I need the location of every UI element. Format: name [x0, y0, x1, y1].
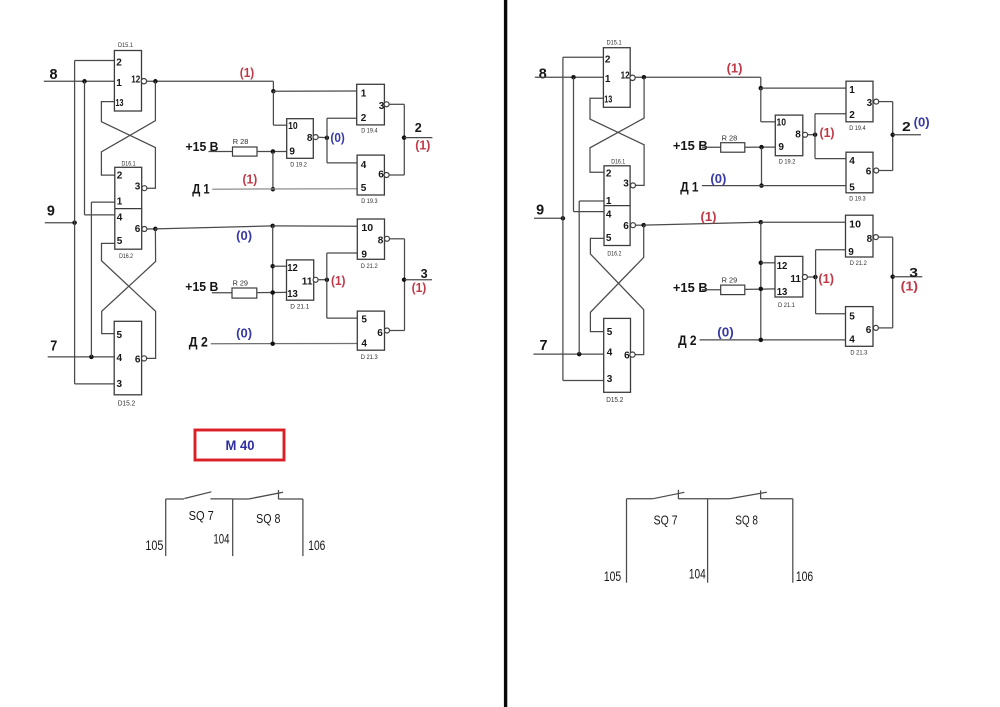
- svg-text:2: 2: [117, 171, 123, 182]
- junction on wire 9 (right): [561, 216, 566, 221]
- junction on wire 7 (right): [577, 352, 582, 357]
- svg-text:2: 2: [849, 110, 855, 121]
- wire D15.1 output 12 (right): [635, 76, 761, 78]
- wire vertical net 8 (left): [84, 81, 86, 215]
- wire D16.2 out6 segment b (right): [644, 222, 761, 225]
- wire corner to out3 node upper (left): [404, 239, 406, 280]
- wire vertical R28 net to D1 (left): [272, 152, 274, 190]
- wire vertical D21.1-out net (left): [326, 253, 328, 318]
- svg-text:(0): (0): [914, 116, 930, 130]
- inversion bubble D15.1 out 12 (right): [630, 75, 635, 80]
- svg-text:3: 3: [909, 265, 918, 280]
- svg-text:9: 9: [47, 203, 55, 220]
- svg-text:6: 6: [624, 351, 630, 362]
- wire cross-couple D16.2 pin5 to D15.2 out6 (right): [590, 238, 643, 354]
- svg-text:6: 6: [623, 221, 629, 232]
- wire input 7 (right): [533, 353, 604, 355]
- wire D16.2 out6 segment b (left): [155, 226, 272, 229]
- wire corner to out3 node lower (left): [404, 280, 406, 331]
- wire D21.3 out6 (right): [878, 327, 893, 329]
- inversion bubble D16.1 out 3 (left): [142, 186, 147, 191]
- wire D19.2 out to node (right): [808, 134, 816, 136]
- svg-text:(0): (0): [236, 327, 252, 341]
- svg-text:3: 3: [623, 179, 629, 190]
- svg-text:2: 2: [415, 120, 422, 135]
- svg-text:3: 3: [135, 181, 141, 192]
- svg-text:D 19.3: D 19.3: [849, 197, 866, 203]
- wire corner to out2 node lower (right): [892, 135, 894, 171]
- flip-flop D15.2 (left): [114, 321, 141, 395]
- wire SQ7 right stub (left): [210, 498, 232, 500]
- svg-text:7: 7: [540, 337, 548, 354]
- svg-text:4: 4: [117, 353, 123, 364]
- wire to D15.2 pin3 (left): [75, 383, 115, 385]
- svg-text:1: 1: [361, 89, 367, 100]
- wire to D19.2 pin10 (left): [273, 124, 286, 126]
- inversion bubble D19.4 out 3 (left): [384, 102, 389, 107]
- wire to D15.1 pin2 (right): [563, 56, 603, 58]
- junction R29 net (right): [759, 287, 764, 292]
- svg-text:3: 3: [867, 98, 873, 109]
- svg-text:SQ 7: SQ 7: [189, 509, 214, 523]
- wire to D16.1 pin1 (left): [91, 201, 114, 203]
- wire to D15.2 pin3 (right): [563, 380, 604, 382]
- svg-text:7: 7: [50, 337, 57, 354]
- terminal wire 105 (left): [165, 499, 167, 556]
- svg-text:(0): (0): [330, 131, 344, 145]
- svg-text:9: 9: [361, 249, 367, 260]
- junction D2 net (right): [759, 338, 764, 343]
- svg-text:+15 В: +15 В: [673, 280, 708, 295]
- svg-text:2: 2: [902, 119, 911, 134]
- wire corner to out3 node upper (right): [892, 237, 894, 277]
- svg-text:D 21.2: D 21.2: [361, 264, 379, 270]
- svg-text:(0): (0): [236, 229, 252, 243]
- wire cross-couple D15.1 out12 to D16.1 pin2 (right): [590, 77, 644, 172]
- resistor R28 (left): [233, 147, 258, 156]
- wire to D19.2 pin10 (right): [761, 121, 776, 123]
- svg-text:R 28: R 28: [722, 135, 738, 142]
- svg-text:8: 8: [50, 66, 58, 83]
- wire output 3 (left): [405, 279, 433, 281]
- svg-text:2: 2: [361, 113, 367, 124]
- terminal wire 104 (left): [232, 499, 234, 556]
- wire D19.2 out to node (left): [318, 136, 326, 138]
- wire D19.3 out6 (right): [879, 170, 893, 172]
- svg-text:5: 5: [117, 330, 123, 341]
- wire D15.1 output 12 (left): [147, 80, 274, 82]
- terminal wire 106 (left): [302, 499, 304, 556]
- node output 3 (left): [402, 277, 407, 282]
- junction on wire 7 (left): [89, 355, 94, 360]
- junction D16.2 out6 (right): [641, 223, 646, 228]
- wire D16.2 out6 segment c to D21.2 pin10 (right): [761, 221, 846, 223]
- wire to D16.2 pin4 (right): [574, 211, 605, 213]
- wire cross-couple D15.1 out12 to D16.1 pin2 (left): [101, 81, 155, 175]
- junction R29 net (left): [270, 290, 275, 295]
- node output 2 (left): [402, 135, 407, 140]
- wire cross-couple D16.2 out6 to D15.2 pin5 (right): [590, 225, 643, 332]
- svg-text:5: 5: [849, 182, 855, 193]
- node output 2 (right): [890, 133, 895, 138]
- wire vertical D19.2-out net (right): [814, 114, 816, 159]
- gate D21.1 (left): [287, 260, 314, 300]
- svg-text:6: 6: [866, 325, 872, 336]
- wire to D21.2 pin9 (left): [327, 252, 358, 254]
- svg-text:1: 1: [606, 196, 612, 207]
- svg-text:11: 11: [302, 276, 313, 287]
- svg-text:105: 105: [604, 569, 621, 584]
- wire vertical R28 net to D1 (right): [761, 147, 763, 186]
- svg-text:(1): (1): [415, 138, 430, 152]
- node A left upper: [271, 89, 276, 94]
- wire node A down (left): [272, 91, 274, 125]
- svg-text:(1): (1): [243, 172, 258, 186]
- svg-text:D 19.4: D 19.4: [849, 126, 866, 132]
- svg-text:3: 3: [607, 374, 613, 385]
- wire +15V to R28 (left): [209, 151, 233, 153]
- svg-text:R 28: R 28: [233, 139, 249, 146]
- svg-text:(1): (1): [901, 280, 918, 294]
- svg-text:D15.2: D15.2: [606, 397, 623, 404]
- svg-text:5: 5: [361, 183, 367, 194]
- wire node A to D19.4 pin1 (right): [761, 87, 846, 89]
- wire output 2 (right): [893, 134, 921, 136]
- svg-text:104: 104: [213, 532, 229, 547]
- junction D16.2 out6 (left): [153, 227, 158, 232]
- junction D21.1 out (left): [325, 278, 330, 283]
- wire corner to out2 node upper (left): [403, 104, 405, 137]
- svg-text:10: 10: [361, 223, 373, 234]
- svg-text:12: 12: [131, 75, 140, 86]
- svg-text:D16.1: D16.1: [611, 159, 625, 166]
- svg-text:D 21.2: D 21.2: [850, 261, 868, 267]
- inversion bubble D15.2 out 6 (left): [142, 356, 147, 361]
- svg-text:104: 104: [689, 566, 706, 581]
- wire to D21.3 pin5 (left): [327, 317, 358, 319]
- wire D19.3 out6 (left): [389, 174, 404, 176]
- wire input 7 (left): [48, 356, 115, 358]
- wire input 9 (left): [45, 222, 75, 224]
- wire vertical node B (right): [760, 222, 762, 340]
- gate D19.2 (right): [775, 115, 803, 156]
- junction D1 net (left): [271, 187, 276, 192]
- wire D21.3 out6 (left): [389, 330, 404, 332]
- wire output 2 (left): [404, 137, 432, 139]
- svg-text:1: 1: [117, 196, 123, 207]
- junction D1 net (right): [759, 183, 764, 188]
- svg-text:(1): (1): [412, 281, 427, 295]
- svg-text:3: 3: [379, 101, 385, 112]
- svg-text:10: 10: [288, 121, 298, 132]
- svg-text:D 21.1: D 21.1: [290, 305, 310, 311]
- switch SQ7 blade (right): [652, 492, 684, 499]
- svg-text:105: 105: [145, 538, 163, 553]
- wire corner down to node (right): [760, 77, 762, 88]
- wire node A down (right): [760, 88, 762, 122]
- svg-text:8: 8: [307, 133, 313, 144]
- svg-text:1: 1: [116, 78, 122, 89]
- wire to D16.1 pin1 (right): [579, 200, 604, 202]
- wire D21.2 out8 (right): [878, 236, 893, 238]
- switch SQ7 blade (left): [184, 492, 211, 499]
- svg-text:(1): (1): [820, 126, 835, 140]
- svg-text:1: 1: [605, 74, 611, 85]
- node B left lower: [270, 224, 275, 229]
- inversion bubble D16.2 out 6 (left): [142, 227, 147, 232]
- resistor R29 (right): [721, 285, 745, 295]
- svg-text:4: 4: [361, 160, 367, 171]
- wire vertical net 7 (left): [90, 202, 92, 357]
- svg-text:2: 2: [606, 169, 612, 180]
- junction D21.1 out (right): [813, 275, 818, 280]
- svg-text:Д 1: Д 1: [192, 181, 210, 197]
- wire vertical D21.1-out net (right): [815, 250, 817, 314]
- wire corner to out2 node lower (left): [403, 138, 405, 175]
- node output 3 (right): [890, 274, 895, 279]
- svg-text:13: 13: [116, 98, 124, 109]
- junction R28 net (left): [271, 149, 276, 154]
- switch SQ8 blade (left): [249, 492, 283, 499]
- junction D21.1 pin12 net (right): [759, 261, 764, 266]
- wire R28 to D19.2 pin9 (left): [257, 151, 287, 153]
- gate D21.2 (right): [846, 215, 874, 257]
- wire vertical net 9 (left): [74, 61, 76, 384]
- node A right upper: [759, 86, 764, 91]
- junction R28 net (right): [759, 145, 764, 150]
- svg-text:6: 6: [378, 170, 384, 181]
- switch SQ8 contact tick (right): [760, 490, 762, 499]
- junction D15.1 out (left): [153, 79, 158, 84]
- wire input D1 to D19.3 pin5 (right): [702, 185, 846, 187]
- svg-text:11: 11: [790, 274, 801, 285]
- svg-text:SQ 7: SQ 7: [654, 513, 678, 527]
- junction D2 net (left): [270, 341, 275, 346]
- wire input D1 to D19.3 pin5 (left): [212, 188, 357, 191]
- wire +15V to R28 (right): [702, 146, 721, 148]
- node B right lower: [759, 220, 764, 225]
- svg-text:4: 4: [849, 156, 855, 167]
- inversion bubble D15.2 out 6 (right): [630, 352, 635, 357]
- svg-text:4: 4: [117, 213, 123, 224]
- svg-text:5: 5: [607, 327, 613, 338]
- svg-text:D16.1: D16.1: [122, 160, 136, 167]
- svg-text:5: 5: [117, 236, 123, 247]
- inversion bubble D21.2 out 8 (left): [385, 236, 390, 241]
- wire to D21.1 pin12 (right): [761, 262, 775, 264]
- wire input D2 to D21.3 pin4 (left): [211, 343, 357, 345]
- svg-text:5: 5: [849, 312, 855, 323]
- svg-text:6: 6: [135, 224, 141, 235]
- wire output 3 (right): [893, 276, 923, 278]
- junction on wire 9 (left): [72, 220, 77, 225]
- svg-text:SQ 8: SQ 8: [735, 513, 758, 527]
- switch SQ8 contact tick (left): [278, 490, 280, 499]
- flip-flop D16.1/D16.2 body (left): [115, 167, 142, 249]
- wire D16.2 out6 segment a (left): [147, 228, 156, 230]
- gate D21.3 (right): [846, 307, 874, 347]
- svg-text:+15 В: +15 В: [673, 138, 708, 153]
- wire SQ8 left lead (left): [233, 498, 249, 500]
- inversion bubble D21.1 out 11 (right): [802, 275, 807, 280]
- svg-text:5: 5: [361, 314, 367, 325]
- inversion bubble D21.1 out 11 (left): [313, 277, 318, 282]
- wire +15V to R29 (right): [702, 289, 721, 291]
- wire corner to out3 node lower (right): [892, 277, 894, 328]
- svg-text:D15.1: D15.1: [607, 39, 622, 46]
- wire node A to D19.4 pin1 (left): [273, 90, 356, 92]
- wire cross-couple D15.1 pin13 to D16.1 out3 (right): [590, 98, 644, 185]
- svg-text:10: 10: [777, 118, 787, 129]
- svg-text:(0): (0): [710, 172, 726, 186]
- flip-flop D15.2 (right): [604, 318, 631, 392]
- wire input 9 (right): [534, 217, 563, 219]
- gate D19.4 (right): [846, 81, 873, 122]
- page divider line: [504, 0, 507, 707]
- svg-text:6: 6: [135, 354, 141, 365]
- wire to D19.4 pin2 (left): [327, 117, 357, 119]
- gate D19.2 (left): [287, 119, 314, 159]
- svg-text:106: 106: [308, 538, 325, 553]
- wire input 8 (left): [44, 80, 115, 82]
- svg-text:10: 10: [849, 220, 861, 231]
- wire cross-couple D16.2 pin5 to D15.2 out6 (left): [102, 243, 156, 358]
- wire input D2 to D21.3 pin4 (right): [700, 339, 846, 341]
- marker box M 40: [195, 430, 284, 460]
- wire D19.4 out3 (right): [879, 101, 893, 103]
- svg-text:3: 3: [117, 379, 123, 390]
- divider between D16.1 and D16.2 (right): [604, 205, 630, 207]
- inversion bubble D16.2 out 6 (right): [631, 223, 636, 228]
- wire to D15.1 pin2 (left): [75, 60, 115, 62]
- junction D19.2 out (right): [813, 132, 818, 137]
- svg-text:9: 9: [848, 247, 854, 258]
- svg-text:(1): (1): [701, 210, 717, 224]
- svg-text:8: 8: [867, 234, 873, 245]
- svg-text:4: 4: [361, 339, 367, 350]
- svg-text:2: 2: [116, 58, 122, 69]
- wire D19.4 out3 (left): [389, 103, 404, 105]
- terminal wire 104 (right): [707, 499, 709, 583]
- resistor R28 (right): [721, 143, 745, 153]
- svg-text:3: 3: [421, 266, 428, 281]
- svg-text:13: 13: [287, 289, 298, 300]
- svg-text:D 19.3: D 19.3: [361, 199, 378, 205]
- wire D21.1 out to node (right): [807, 276, 815, 278]
- junction D21.1 pin12 net (left): [270, 264, 275, 269]
- flip-flop D16.1/D16.2 body (right): [604, 166, 630, 246]
- wire D21.1 out to node (left): [318, 279, 326, 281]
- flip-flop D15.1 (left): [114, 51, 141, 112]
- wire D16.2 out6 segment c to D21.2 pin10 (left): [273, 225, 358, 227]
- svg-text:D15.1: D15.1: [118, 42, 133, 49]
- wire vertical net 9 (right): [562, 57, 564, 380]
- svg-text:М 40: М 40: [226, 438, 255, 453]
- wire vertical node B (left): [272, 226, 274, 344]
- svg-text:D 19.2: D 19.2: [779, 160, 796, 166]
- svg-text:D 21.1: D 21.1: [778, 303, 796, 309]
- wire cross-couple D16.2 out6 to D15.2 pin5 (left): [102, 229, 156, 334]
- inversion bubble D19.3 out 6 (right): [874, 168, 879, 173]
- gate D21.2 (left): [357, 219, 384, 259]
- wire vertical D19.2-out net (left): [326, 118, 328, 163]
- svg-text:D 19.4: D 19.4: [361, 129, 378, 135]
- wire SQ8 left lead (right): [708, 498, 730, 500]
- svg-text:(1): (1): [240, 66, 254, 80]
- wire to D16.2 pin4 (left): [85, 214, 115, 216]
- svg-text:9: 9: [536, 202, 544, 219]
- svg-text:D15.2: D15.2: [118, 401, 136, 408]
- wire to D21.3 pin5 (right): [816, 313, 846, 315]
- wire R28 to D19.2 pin9 (right): [745, 146, 776, 148]
- wire cross-couple D15.1 pin13 to D16.1 out3 (left): [101, 102, 155, 189]
- wire SQ8 right lead (right): [761, 498, 793, 500]
- inversion bubble D19.3 out 6 (left): [384, 173, 389, 178]
- gate D21.3 (left): [357, 311, 384, 350]
- svg-text:Д 1: Д 1: [680, 179, 698, 195]
- inversion bubble D19.2 out 8 (right): [803, 132, 808, 137]
- inversion bubble D19.2 out 8 (left): [313, 135, 318, 140]
- switch SQ7 contact tick (right): [677, 490, 679, 499]
- wire input 8 (right): [535, 76, 603, 78]
- wire to D21.2 pin9 (right): [816, 249, 846, 251]
- svg-text:1: 1: [849, 85, 855, 96]
- svg-text:4: 4: [849, 334, 855, 345]
- svg-text:D16.2: D16.2: [119, 253, 133, 260]
- svg-text:R 29: R 29: [233, 280, 249, 287]
- inversion bubble D21.2 out 8 (right): [873, 235, 878, 240]
- svg-text:R 29: R 29: [722, 278, 738, 285]
- wire +15V to R29 (left): [212, 292, 232, 294]
- svg-text:8: 8: [539, 66, 547, 83]
- wire D16.2 out6 segment a (right): [635, 224, 643, 226]
- svg-text:D 21.3: D 21.3: [361, 355, 379, 361]
- inversion bubble D21.3 out 6 (left): [385, 328, 390, 333]
- wire SQ7 right lead (right): [678, 498, 707, 500]
- wire corner down to node (left): [272, 81, 274, 91]
- wire D21.2 out8 (left): [389, 238, 404, 240]
- switch SQ8 blade (right): [730, 492, 767, 499]
- resistor R29 (left): [232, 288, 257, 298]
- wire SQ7 left lead (left): [166, 498, 184, 500]
- svg-text:4: 4: [606, 210, 612, 221]
- gate D19.3 (right): [846, 152, 873, 193]
- wire R29 to D21.1 pin13 (left): [257, 291, 287, 293]
- svg-text:Д 2: Д 2: [189, 333, 208, 349]
- svg-text:9: 9: [778, 142, 784, 153]
- wire vertical net 8 (right): [573, 77, 575, 211]
- svg-text:8: 8: [795, 130, 801, 141]
- svg-text:12: 12: [621, 70, 630, 81]
- terminal wire 105 (right): [626, 499, 628, 583]
- wire R29 to D21.1 pin13 (right): [745, 288, 775, 291]
- wire SQ8 right lead (left): [279, 498, 303, 500]
- wire to D19.3 pin4 (right): [815, 158, 846, 160]
- gate D19.3 (left): [357, 155, 384, 195]
- wire SQ7 left lead (right): [627, 498, 653, 500]
- divider between D16.1 and D16.2 (left): [115, 208, 142, 210]
- svg-text:Д 2: Д 2: [678, 332, 697, 348]
- svg-text:106: 106: [796, 569, 813, 584]
- gate D19.4 (left): [357, 84, 385, 125]
- svg-text:D 21.3: D 21.3: [850, 351, 868, 357]
- wire to D19.3 pin4 (left): [327, 162, 357, 164]
- flip-flop D15.1 (right): [603, 48, 630, 108]
- svg-text:8: 8: [378, 235, 384, 246]
- junction on wire 8 (left): [82, 79, 87, 84]
- wire to D21.1 pin12 (left): [273, 265, 287, 267]
- svg-text:+15 В: +15 В: [185, 280, 218, 294]
